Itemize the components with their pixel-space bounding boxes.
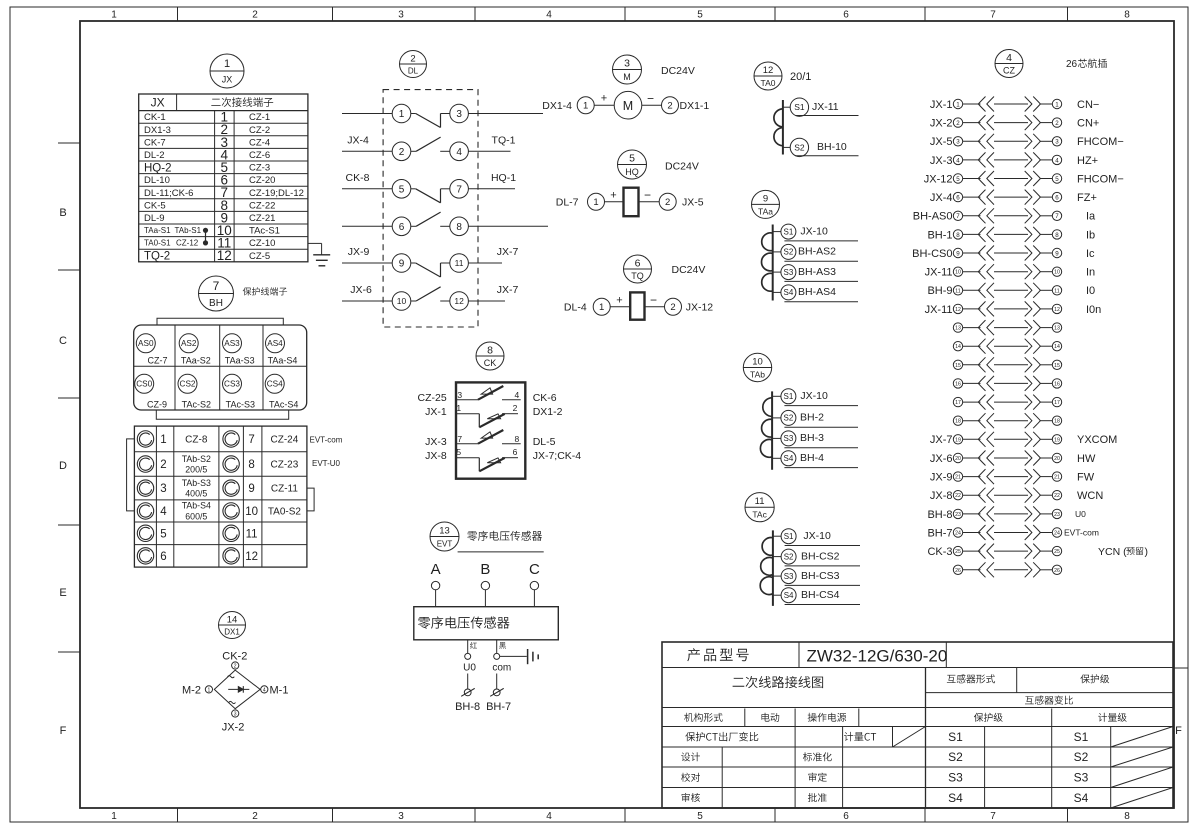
- CZ pin 13: [953, 320, 1061, 335]
- svg-text:JX-6: JX-6: [350, 284, 372, 296]
- BH terminal block: [134, 318, 307, 419]
- svg-text:Ic: Ic: [1086, 248, 1095, 260]
- svg-text:HZ+: HZ+: [1077, 155, 1098, 167]
- svg-text:D: D: [59, 460, 67, 472]
- svg-text:AS3: AS3: [224, 339, 240, 348]
- svg-text:19: 19: [955, 437, 961, 443]
- svg-text:TA0: TA0: [761, 78, 776, 88]
- svg-text:6: 6: [843, 10, 849, 21]
- svg-text:BH-7: BH-7: [927, 527, 952, 539]
- CZ pin 10: [925, 264, 1096, 279]
- CZ pin 7: [913, 208, 1096, 223]
- svg-text:M-1: M-1: [270, 684, 289, 696]
- svg-text:BH-8: BH-8: [927, 509, 952, 521]
- svg-text:DX1-1: DX1-1: [680, 100, 710, 112]
- svg-text:DL-10: DL-10: [144, 175, 170, 186]
- svg-text:S2: S2: [784, 248, 794, 257]
- TAb terminal S1 (JX-10): [772, 389, 858, 406]
- strip bracket right (rows 9-10): [307, 488, 314, 511]
- svg-text:26: 26: [1066, 59, 1078, 70]
- svg-text:25: 25: [1054, 549, 1060, 555]
- svg-text:1: 1: [111, 811, 117, 822]
- CZ pin 21: [930, 469, 1095, 484]
- CZ pin 19: [930, 432, 1117, 447]
- svg-text:3: 3: [160, 483, 166, 495]
- svg-text:3: 3: [956, 139, 960, 146]
- TAb terminal S4 (BH-4): [772, 451, 858, 468]
- CZ pin 23: [927, 506, 1086, 521]
- svg-text:JX-6: JX-6: [930, 453, 953, 465]
- opening coil marker TQ (6): [624, 255, 652, 283]
- svg-text:CZ-19;DL-12: CZ-19;DL-12: [249, 188, 304, 199]
- CZ pin 15: [953, 357, 1061, 372]
- svg-text:BH-AS2: BH-AS2: [798, 246, 836, 258]
- svg-text:5: 5: [956, 176, 960, 183]
- svg-text:24: 24: [955, 531, 961, 537]
- svg-text:4: 4: [546, 10, 552, 21]
- svg-text:M: M: [623, 72, 631, 82]
- svg-text:In: In: [1086, 267, 1095, 279]
- breaker aux contact block DL (2) header circle: [400, 51, 427, 78]
- svg-text:DL-9: DL-9: [144, 213, 165, 224]
- svg-text:4: 4: [160, 506, 167, 518]
- svg-text:16: 16: [955, 381, 961, 387]
- svg-text:FHCOM−: FHCOM−: [1077, 136, 1124, 148]
- svg-text:12: 12: [955, 307, 961, 313]
- svg-text:CZ-7: CZ-7: [148, 355, 168, 365]
- svg-text:7: 7: [1055, 213, 1059, 220]
- svg-text:7: 7: [457, 434, 462, 444]
- svg-text:U0: U0: [463, 663, 476, 674]
- svg-text:S1: S1: [784, 532, 794, 541]
- svg-text:DC24V: DC24V: [672, 264, 706, 276]
- svg-text:S4: S4: [948, 791, 963, 805]
- svg-text:19: 19: [1054, 437, 1060, 443]
- svg-text:8: 8: [515, 434, 520, 444]
- svg-text:CZ-6: CZ-6: [249, 150, 270, 161]
- svg-text:TAc: TAc: [752, 509, 767, 519]
- svg-text:AS0: AS0: [138, 339, 154, 348]
- svg-text:1: 1: [208, 687, 211, 693]
- svg-text:AS4: AS4: [267, 339, 283, 348]
- CZ pin 18: [953, 413, 1061, 428]
- svg-text:13: 13: [1054, 326, 1060, 332]
- DL contact 6-8: [342, 212, 548, 236]
- protection terminal marker BH (7): [199, 276, 234, 311]
- svg-text:TQ: TQ: [631, 271, 644, 281]
- svg-text:TAb: TAb: [750, 370, 765, 380]
- EVT phase C input: [529, 561, 540, 607]
- TA0 winding: [774, 100, 783, 155]
- svg-text:JX-4: JX-4: [930, 192, 953, 204]
- svg-text:TA0-S2: TA0-S2: [268, 506, 302, 517]
- svg-text:10: 10: [397, 296, 407, 306]
- svg-text:14: 14: [227, 614, 238, 625]
- svg-text:5: 5: [160, 528, 166, 540]
- svg-text:DL-11;CK-6: DL-11;CK-6: [144, 188, 193, 199]
- svg-text:CS2: CS2: [180, 380, 196, 389]
- svg-text:3: 3: [234, 712, 237, 718]
- CZ pin 14: [953, 339, 1061, 354]
- svg-text:S3: S3: [784, 572, 794, 581]
- svg-text:JX-9: JX-9: [930, 471, 953, 483]
- TA0 terminal S2 (BH-10): [783, 138, 859, 156]
- svg-text:1: 1: [111, 10, 117, 21]
- DL contact 9-11: [342, 254, 502, 277]
- CZ pin 4: [930, 152, 1098, 167]
- svg-text:10: 10: [1054, 270, 1060, 276]
- svg-text:7: 7: [990, 10, 996, 21]
- svg-text:2: 2: [252, 10, 258, 21]
- svg-text:6: 6: [1055, 194, 1059, 201]
- svg-text:4: 4: [263, 687, 266, 693]
- svg-text:11: 11: [246, 528, 258, 540]
- svg-text:9: 9: [1055, 250, 1059, 257]
- svg-text:FW: FW: [1077, 471, 1095, 483]
- svg-text:4: 4: [956, 157, 960, 164]
- svg-text:JX-2: JX-2: [930, 117, 953, 129]
- svg-text:2: 2: [956, 120, 960, 127]
- svg-text:JX-8: JX-8: [930, 490, 953, 502]
- svg-text:CZ-22: CZ-22: [249, 200, 275, 211]
- svg-text:TAc-S1: TAc-S1: [249, 226, 280, 237]
- svg-text:DL-4: DL-4: [564, 301, 587, 313]
- svg-text:1: 1: [160, 434, 166, 446]
- svg-text:S2: S2: [948, 750, 963, 764]
- svg-text:CZ-24: CZ-24: [271, 434, 299, 445]
- svg-text:JX-11: JX-11: [812, 101, 839, 113]
- EVT output terminals BH-8 / BH-7: [455, 674, 511, 713]
- svg-text:I0n: I0n: [1086, 304, 1101, 316]
- svg-text:S1: S1: [1074, 730, 1089, 744]
- svg-text:CZ-4: CZ-4: [249, 137, 270, 148]
- CZ pin 26: [953, 562, 1061, 577]
- svg-text:S3: S3: [784, 434, 794, 443]
- cam switch marker CK (8): [476, 342, 504, 370]
- HQ coil circuit: [556, 188, 704, 217]
- sensor marker EVT (13): [430, 522, 459, 551]
- svg-text:−: −: [644, 188, 651, 202]
- svg-text:JX-4: JX-4: [347, 134, 369, 146]
- svg-text:5: 5: [399, 184, 405, 195]
- svg-text:CZ: CZ: [1003, 66, 1015, 76]
- svg-text:8: 8: [1055, 232, 1059, 239]
- svg-text:JX-7: JX-7: [930, 434, 953, 446]
- svg-text:CK-8: CK-8: [346, 172, 370, 184]
- svg-text:+: +: [601, 93, 607, 105]
- CZ pin 5: [924, 171, 1124, 186]
- svg-text:4: 4: [546, 811, 552, 822]
- svg-text:CK-1: CK-1: [144, 112, 166, 123]
- CZ pin 1: [930, 97, 1099, 112]
- svg-text:EVT: EVT: [437, 540, 453, 549]
- svg-text:S4: S4: [1074, 791, 1089, 805]
- svg-text:+: +: [616, 295, 622, 307]
- svg-text:CN+: CN+: [1077, 117, 1099, 129]
- svg-text:S4: S4: [784, 454, 794, 463]
- DL contact 1-3: [342, 104, 543, 127]
- TAa terminal S4 (BH-AS4): [773, 285, 858, 302]
- svg-text:12: 12: [454, 296, 464, 306]
- svg-text:WCN: WCN: [1077, 490, 1103, 502]
- svg-text:2: 2: [399, 147, 405, 158]
- current transformer TA0 (12): [754, 62, 782, 90]
- svg-text:9: 9: [399, 259, 405, 270]
- svg-text:7: 7: [956, 213, 960, 220]
- svg-text:YCN (: YCN (: [1098, 546, 1127, 558]
- svg-text:BH-4: BH-4: [800, 452, 824, 464]
- motor marker M (3): [613, 55, 642, 84]
- svg-text:6: 6: [399, 222, 405, 233]
- svg-text:CS3: CS3: [224, 380, 240, 389]
- svg-text:1: 1: [956, 101, 960, 108]
- svg-text:S4: S4: [784, 288, 794, 297]
- svg-text:7: 7: [248, 434, 254, 446]
- CK contact 7-8: [425, 430, 556, 448]
- svg-text:BH-AS0: BH-AS0: [913, 211, 953, 223]
- svg-text:TAa-S4: TAa-S4: [268, 355, 298, 365]
- svg-text:HQ-1: HQ-1: [491, 172, 516, 184]
- svg-text:14: 14: [1054, 344, 1060, 350]
- svg-text:7: 7: [456, 184, 462, 195]
- svg-text:CZ-21: CZ-21: [249, 213, 275, 224]
- svg-text:3: 3: [398, 10, 404, 21]
- svg-text:11: 11: [1054, 288, 1059, 294]
- svg-text:DX1: DX1: [224, 628, 240, 637]
- CZ pin 8: [927, 227, 1095, 242]
- TAa winding: [762, 225, 773, 301]
- svg-text:JX-1: JX-1: [425, 406, 447, 418]
- svg-text:HQ: HQ: [625, 167, 639, 177]
- svg-text:JX-9: JX-9: [348, 246, 370, 258]
- svg-text:BH-AS3: BH-AS3: [798, 266, 836, 278]
- svg-text:JX-8: JX-8: [425, 450, 447, 462]
- svg-text:15: 15: [1054, 363, 1060, 369]
- svg-text:6: 6: [513, 447, 518, 457]
- DL contact 2-4: [342, 137, 511, 161]
- svg-text:400/5: 400/5: [185, 489, 207, 499]
- current transformer TAc (11): [745, 493, 774, 522]
- svg-text:4: 4: [515, 390, 520, 400]
- CZ pin 11: [927, 283, 1095, 298]
- svg-text:TAb-S2: TAb-S2: [182, 454, 211, 464]
- svg-text:3: 3: [457, 390, 462, 400]
- EVT title 零序电压传感器: [458, 531, 544, 552]
- svg-text:3: 3: [456, 109, 462, 120]
- CZ pin 17: [953, 395, 1061, 410]
- svg-text:6: 6: [635, 257, 641, 269]
- dashed enclosure DL: [383, 90, 478, 327]
- svg-text:BH-9: BH-9: [927, 285, 952, 297]
- svg-text:12: 12: [217, 248, 232, 263]
- svg-text:DL-2: DL-2: [144, 150, 165, 161]
- svg-text:10: 10: [752, 356, 763, 367]
- TA0 terminal S1 (JX-11): [783, 98, 859, 116]
- svg-text:11: 11: [755, 496, 765, 507]
- svg-text:BH-3: BH-3: [800, 432, 824, 444]
- svg-text:9: 9: [248, 483, 254, 495]
- svg-text:5: 5: [456, 447, 461, 457]
- svg-text:20: 20: [1054, 456, 1060, 462]
- svg-text:1: 1: [224, 58, 230, 70]
- svg-text:FHCOM−: FHCOM−: [1077, 173, 1124, 185]
- current transformer TAb (10): [743, 353, 771, 381]
- svg-text:CZ-12: CZ-12: [176, 239, 199, 248]
- svg-text:JX-3: JX-3: [930, 155, 953, 167]
- svg-text:20/1: 20/1: [790, 71, 811, 83]
- svg-text:23: 23: [1054, 512, 1060, 518]
- svg-text:6: 6: [956, 194, 960, 201]
- svg-text:JX-10: JX-10: [803, 530, 831, 542]
- svg-text:1: 1: [599, 302, 604, 313]
- svg-text:TA0-S1: TA0-S1: [144, 239, 171, 248]
- ground symbol at JX table: [308, 243, 330, 265]
- svg-text:5: 5: [1055, 176, 1059, 183]
- svg-text:7: 7: [213, 279, 220, 293]
- svg-text:14: 14: [955, 344, 961, 350]
- svg-text:DL-5: DL-5: [533, 436, 556, 448]
- svg-text:JX-10: JX-10: [800, 225, 828, 237]
- svg-text:CZ-5: CZ-5: [249, 251, 270, 262]
- svg-text:BH-CS3: BH-CS3: [801, 570, 840, 582]
- svg-text:HQ-2: HQ-2: [144, 162, 171, 174]
- TAa terminal S2 (BH-AS2): [773, 244, 858, 261]
- svg-text:BH-7: BH-7: [486, 701, 511, 713]
- svg-text:21: 21: [1054, 475, 1060, 481]
- TAc terminal S4 (BH-CS4): [773, 588, 860, 605]
- EVT phase A input: [431, 561, 441, 607]
- svg-text:18: 18: [1054, 419, 1060, 425]
- svg-text:2: 2: [665, 197, 670, 208]
- svg-text:12: 12: [763, 65, 774, 76]
- svg-text:YXCOM: YXCOM: [1077, 434, 1117, 446]
- svg-text:2: 2: [234, 664, 237, 670]
- DL wire labels: [346, 134, 519, 296]
- svg-text:TAa-S3: TAa-S3: [225, 355, 255, 365]
- svg-text:JX-5: JX-5: [930, 136, 953, 148]
- svg-text:JX-10: JX-10: [800, 390, 828, 402]
- svg-text:S3: S3: [948, 771, 963, 785]
- svg-text:S2: S2: [784, 552, 794, 561]
- svg-text:S4: S4: [784, 591, 794, 600]
- svg-text:FZ+: FZ+: [1077, 192, 1097, 204]
- svg-text:9: 9: [956, 250, 960, 257]
- svg-text:CZ-11: CZ-11: [271, 484, 298, 495]
- svg-text:3: 3: [624, 58, 630, 70]
- svg-text:S3: S3: [1074, 771, 1089, 785]
- svg-text:13: 13: [439, 525, 450, 536]
- svg-text:8: 8: [487, 344, 493, 356]
- svg-text:DL-7: DL-7: [556, 196, 579, 208]
- svg-text:25: 25: [955, 549, 961, 555]
- svg-text:BH-CS2: BH-CS2: [801, 550, 840, 562]
- svg-text:EVT-U0: EVT-U0: [312, 459, 341, 468]
- EVT phase B input: [480, 561, 490, 607]
- svg-text:TAc-S4: TAc-S4: [269, 399, 298, 409]
- CK contact 1-2: [425, 403, 563, 427]
- svg-text:CZ-9: CZ-9: [147, 399, 167, 409]
- EVT sensor box 零序电压传感器: [414, 607, 559, 640]
- svg-text:TAb-S3: TAb-S3: [182, 478, 211, 488]
- svg-text:2: 2: [513, 403, 518, 413]
- svg-text:TQ-2: TQ-2: [144, 251, 170, 263]
- svg-text:JX-7: JX-7: [497, 284, 519, 296]
- DL contact 10-12: [342, 287, 505, 311]
- svg-text:3: 3: [1055, 139, 1059, 146]
- svg-text:TAc-S2: TAc-S2: [182, 399, 211, 409]
- svg-text:TAa-S2: TAa-S2: [181, 355, 211, 365]
- svg-text:JX-7;CK-4: JX-7;CK-4: [533, 450, 582, 462]
- svg-text:BH: BH: [209, 298, 223, 309]
- svg-text:26: 26: [955, 568, 961, 574]
- chassis ground (EVT com): [500, 649, 539, 664]
- svg-text:+: +: [610, 190, 616, 202]
- CK contact 3-4: [418, 386, 557, 404]
- svg-text:M: M: [623, 99, 633, 113]
- svg-text:2: 2: [160, 459, 166, 471]
- svg-text:2: 2: [670, 302, 675, 313]
- TAb terminal S3 (BH-3): [772, 431, 858, 448]
- svg-text:F: F: [60, 725, 67, 737]
- svg-text:7: 7: [990, 811, 996, 822]
- svg-text:CN−: CN−: [1077, 99, 1099, 111]
- motor M circuit: [542, 91, 709, 119]
- CZ pin 2: [930, 115, 1099, 130]
- svg-text:BH-CS0: BH-CS0: [912, 248, 952, 260]
- TAc winding: [760, 530, 773, 606]
- svg-text:4: 4: [456, 147, 462, 158]
- TAc terminal S3 (BH-CS3): [773, 569, 860, 586]
- TAb terminal S2 (BH-2): [772, 410, 858, 427]
- svg-text:11: 11: [955, 288, 960, 294]
- svg-text:4: 4: [1055, 157, 1059, 164]
- svg-text:8: 8: [1124, 811, 1130, 822]
- svg-text:17: 17: [1054, 400, 1060, 406]
- DL contact 5-7: [342, 180, 515, 203]
- svg-text:I0: I0: [1086, 285, 1095, 297]
- svg-text:): ): [1145, 546, 1149, 558]
- EVT secondary leads: [463, 640, 511, 674]
- svg-text:1: 1: [583, 101, 588, 112]
- svg-text:1: 1: [399, 109, 405, 120]
- CZ pin 16: [953, 376, 1061, 391]
- svg-text:CZ-25: CZ-25: [418, 392, 447, 404]
- svg-text:CZ-8: CZ-8: [185, 434, 208, 445]
- svg-text:CK: CK: [484, 358, 497, 368]
- svg-text:JX: JX: [151, 96, 165, 110]
- svg-text:S2: S2: [1074, 750, 1089, 764]
- svg-text:12: 12: [245, 551, 258, 563]
- svg-text:23: 23: [955, 512, 961, 518]
- cam switch box CK: [456, 382, 525, 478]
- svg-text:5: 5: [697, 811, 703, 822]
- svg-text:8: 8: [248, 459, 254, 471]
- svg-text:Ia: Ia: [1086, 211, 1096, 223]
- BH block label: [243, 287, 287, 295]
- TAb winding: [760, 391, 772, 469]
- svg-text:U0: U0: [1075, 509, 1086, 519]
- TQ coil circuit: [564, 292, 713, 319]
- svg-text:DC24V: DC24V: [661, 65, 695, 77]
- svg-text:B: B: [480, 561, 490, 578]
- svg-text:BH-CS4: BH-CS4: [801, 589, 840, 601]
- svg-text:JX-1: JX-1: [930, 99, 953, 111]
- svg-text:AS2: AS2: [181, 339, 197, 348]
- svg-text:10: 10: [245, 506, 258, 518]
- svg-text:CS4: CS4: [267, 380, 283, 389]
- TAa terminal S1 (JX-10): [773, 224, 858, 241]
- svg-text:JX-5: JX-5: [682, 196, 704, 208]
